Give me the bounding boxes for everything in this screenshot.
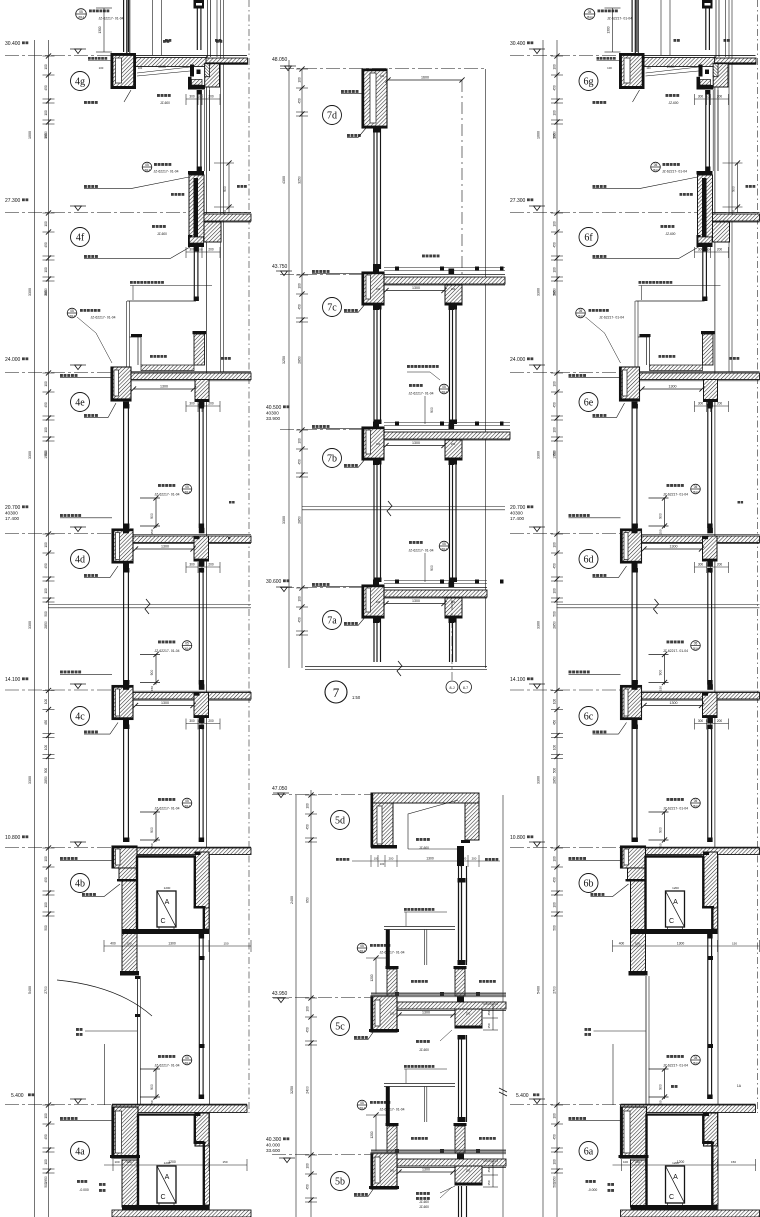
svg-text:150: 150 [223, 942, 228, 946]
svg-text:5b: 5b [335, 1177, 345, 1188]
svg-text:1300: 1300 [607, 26, 611, 33]
svg-text:JZ-62217- 01-04: JZ-62217- 01-04 [98, 17, 123, 21]
svg-text:05: 05 [185, 799, 189, 803]
window head annotation bubble [158, 641, 161, 644]
sub-dimension 300 100 200 [695, 723, 729, 725]
svg-text:1300: 1300 [161, 701, 169, 705]
svg-text:100: 100 [298, 283, 302, 289]
svg-text:100: 100 [706, 95, 711, 99]
svg-text:100: 100 [553, 588, 557, 594]
svg-text:1950: 1950 [553, 1176, 557, 1184]
svg-text:1300: 1300 [168, 942, 176, 946]
module 5d circle [331, 811, 350, 830]
svg-text:3250: 3250 [298, 176, 302, 184]
svg-text:450: 450 [44, 402, 48, 408]
svg-text:05: 05 [185, 1056, 189, 1060]
svg-text:10.800: 10.800 [510, 835, 526, 841]
svg-text:150: 150 [150, 686, 154, 691]
svg-text:J614: J614 [184, 490, 191, 494]
svg-text:JZ-62217- 01-04: JZ-62217- 01-04 [408, 549, 433, 553]
svg-text:-0.000: -0.000 [588, 1188, 598, 1192]
svg-text:05: 05 [360, 944, 364, 948]
module 5b level line [272, 1154, 371, 1156]
svg-text:1000: 1000 [667, 65, 675, 69]
interior finish leader text [60, 671, 63, 674]
svg-text:C: C [160, 1194, 165, 1201]
window head annotation bubble [667, 798, 670, 801]
svg-text:1950: 1950 [44, 131, 48, 139]
glass between g and f [196, 90, 198, 171]
tiny roof labels [165, 39, 168, 42]
svg-text:100: 100 [126, 942, 131, 946]
svg-text:43.950: 43.950 [272, 991, 288, 997]
svg-text:450: 450 [306, 1184, 310, 1190]
svg-text:100: 100 [197, 563, 202, 567]
svg-text:30.400: 30.400 [5, 41, 21, 47]
module 5b leaders [354, 1193, 357, 1196]
sub-dimension 300 100 200 [695, 251, 729, 253]
svg-text:JZ-600: JZ-600 [666, 232, 676, 236]
svg-text:200: 200 [472, 857, 477, 861]
module 5b roof labels [411, 1137, 414, 1140]
module 6e dim 1300 [642, 388, 702, 390]
module 5c level line [272, 997, 371, 999]
svg-text:450: 450 [44, 85, 48, 91]
svg-text:450: 450 [553, 563, 557, 569]
svg-text:24.000: 24.000 [510, 357, 526, 363]
svg-text:1300: 1300 [670, 701, 678, 705]
PW bubble right 7b [409, 384, 412, 387]
svg-text:05: 05 [145, 163, 149, 167]
svg-text:1300: 1300 [412, 599, 420, 603]
chain tick group [551, 1104, 563, 1106]
mid module left jamb block [362, 427, 384, 460]
svg-text:200: 200 [717, 95, 723, 99]
window glazing lines right plane [705, 0, 707, 50]
facade outer line upper [220, 0, 222, 372]
chain tick group [551, 372, 563, 374]
column 6 extent line [542, 40, 544, 1217]
svg-text:200: 200 [717, 563, 723, 567]
svg-text:47.050: 47.050 [272, 786, 288, 792]
svg-text:A: A [673, 1174, 678, 1181]
module 6g window head frame [699, 65, 703, 77]
svg-text:900: 900 [223, 186, 227, 192]
module 4e dim 1300 [134, 388, 194, 390]
section marker circles 8-J 8-7 [451, 600, 453, 680]
window head annotation bubble [158, 1055, 161, 1058]
svg-text:900: 900 [150, 513, 154, 519]
svg-text:450: 450 [306, 1027, 310, 1033]
module 6a A/C box [666, 1166, 685, 1203]
svg-text:450: 450 [306, 824, 310, 830]
leader text sill [593, 731, 596, 734]
module 5d level line [272, 794, 371, 796]
level dash-dot line [5, 689, 112, 691]
middle column chain line [301, 69, 303, 668]
module 6e slab [620, 373, 760, 380]
glass between g and f [705, 90, 707, 171]
svg-text:200: 200 [208, 719, 214, 723]
svg-text:J614: J614 [652, 168, 659, 172]
module 4g finish label [88, 57, 91, 60]
svg-text:300: 300 [698, 402, 704, 406]
svg-text:100: 100 [44, 381, 48, 387]
door frame marks [135, 976, 140, 979]
svg-text:900: 900 [430, 565, 434, 571]
svg-text:5400: 5400 [537, 986, 541, 994]
svg-text:200: 200 [717, 402, 723, 406]
svg-text:1300: 1300 [412, 441, 420, 445]
svg-text:100: 100 [646, 66, 651, 70]
svg-text:05: 05 [654, 163, 658, 167]
module 6g interior slope lines [646, 67, 699, 73]
svg-text:200: 200 [635, 1160, 640, 1164]
module 6g finish label [597, 57, 600, 60]
svg-text:450: 450 [553, 720, 557, 726]
svg-text:JZ-600: JZ-600 [419, 1205, 429, 1209]
svg-text:300: 300 [698, 248, 704, 252]
svg-text:200: 200 [451, 600, 456, 604]
module 7b level line [280, 429, 362, 431]
module 6a ground hatch [621, 1210, 760, 1217]
right beam block [703, 536, 718, 561]
glass between d and c [123, 568, 125, 685]
glass between b and a [198, 934, 200, 1099]
tiny Bh label [229, 501, 232, 504]
svg-text:1200: 1200 [370, 974, 374, 981]
module 6e right beam below [704, 380, 718, 402]
module 5b left block [371, 1153, 397, 1189]
svg-text:100: 100 [553, 902, 557, 908]
module 5c right blocks [455, 1009, 482, 1028]
svg-text:100: 100 [553, 699, 557, 705]
mid chain ticks [296, 274, 308, 276]
detail circle 7d [323, 106, 342, 125]
svg-text:200: 200 [466, 1169, 471, 1173]
svg-text:J614: J614 [577, 314, 584, 318]
facade outer line upper [728, 0, 730, 372]
module 6a leaders [586, 1180, 589, 1183]
detail 7 title circle [325, 681, 347, 703]
svg-text:1300: 1300 [669, 385, 677, 389]
level dash-dot line [510, 1104, 621, 1106]
svg-text:100: 100 [635, 942, 640, 946]
svg-text:17.400: 17.400 [510, 516, 524, 521]
window head annotation bubble [158, 798, 161, 801]
svg-text:650: 650 [306, 897, 310, 903]
svg-text:2850: 2850 [298, 356, 302, 364]
level dash-dot line [510, 212, 698, 214]
wall below module 6b [645, 976, 647, 1105]
window frame blacks [123, 684, 129, 690]
svg-text:500: 500 [553, 611, 557, 617]
module 5b balcony rail [384, 1083, 455, 1085]
sub-dimension 300 100 200 [186, 405, 220, 407]
svg-text:05: 05 [694, 799, 698, 803]
module 6a ground black slab [631, 1205, 718, 1210]
mid module left jamb block [362, 272, 384, 305]
svg-text:200: 200 [208, 248, 214, 252]
level dash-dot line [5, 847, 112, 849]
module 7a level line [280, 587, 362, 589]
module 5b topping dark band [371, 1149, 506, 1154]
svg-text:300: 300 [698, 95, 704, 99]
window head dim 900 [155, 498, 157, 528]
module 6g roof finish line [620, 54, 756, 56]
mid module left jamb block [362, 585, 384, 618]
svg-text:100: 100 [706, 719, 711, 723]
svg-text:100: 100 [298, 77, 302, 83]
svg-text:100: 100 [44, 110, 48, 116]
module 5b circle [331, 1172, 350, 1191]
left column extra right-edge labels [228, 537, 230, 539]
svg-text:300: 300 [698, 719, 704, 723]
5-series extent line [295, 795, 297, 1217]
detail circle 4a [71, 1142, 90, 1161]
svg-text:150: 150 [659, 529, 663, 534]
mid module window frame blacks [373, 267, 379, 273]
svg-text:A: A [165, 899, 170, 906]
window head dim 900 [155, 812, 157, 842]
level dash-dot line [5, 372, 111, 374]
detail circle 4d [71, 550, 90, 569]
svg-text:100: 100 [44, 699, 48, 705]
window frame blacks [632, 684, 638, 690]
detail circle 6b [579, 874, 598, 893]
verticals above parapet [634, 0, 636, 53]
module 4b bottom dims [104, 945, 251, 947]
svg-text:05: 05 [79, 10, 83, 14]
detail circle 4g [71, 72, 90, 91]
detail circle 4c [71, 707, 90, 726]
svg-text:1000: 1000 [158, 65, 166, 69]
module 6f leaders [680, 193, 683, 196]
module 4g window head frame [190, 65, 194, 77]
grid boundary dashed line [248, 0, 250, 1113]
verticals above parapet [126, 0, 128, 53]
left window jamb block [621, 686, 642, 720]
svg-text:JZ-600: JZ-600 [419, 1048, 429, 1052]
mid module dim 1300 [386, 290, 444, 292]
facade outer face mid [205, 56, 207, 855]
detail 7 right boundary [485, 69, 487, 668]
module 7d top level line [280, 68, 485, 70]
story break line [48, 604, 251, 606]
module 5b right dims 450 150 [492, 1161, 494, 1187]
svg-text:150: 150 [659, 686, 663, 691]
chain tick group [551, 847, 563, 849]
module 4g leader texts [157, 94, 160, 97]
chain tick group [43, 690, 55, 692]
insulation board annotation [130, 281, 133, 284]
module 4b right wall column [195, 852, 209, 908]
module 4a leaders [77, 1180, 80, 1183]
svg-text:A: A [673, 899, 678, 906]
mid chain ticks [296, 429, 308, 431]
module 5c sill dim [375, 958, 377, 994]
svg-text:8-7: 8-7 [463, 686, 468, 690]
svg-text:100: 100 [380, 74, 385, 78]
svg-text:400: 400 [110, 942, 116, 946]
svg-text:24.000: 24.000 [5, 357, 21, 363]
mid level line f [204, 212, 251, 214]
svg-text:200: 200 [451, 287, 456, 291]
window head dim 900 [664, 1069, 666, 1099]
svg-text:3300: 3300 [537, 776, 541, 784]
svg-text:JZ-62217- 01-04: JZ-62217- 01-04 [607, 17, 632, 21]
glass mid tabs [199, 956, 205, 960]
right beam block [703, 693, 718, 718]
svg-text:1300: 1300 [422, 1011, 430, 1015]
module 7c level line [280, 274, 362, 276]
svg-text:C: C [669, 1194, 674, 1201]
5-series chain ticks [305, 794, 317, 796]
module 6f right dim 900 [737, 163, 739, 213]
floor slab hatched band [642, 536, 760, 543]
svg-text:3300: 3300 [282, 516, 286, 524]
svg-text:2850: 2850 [44, 288, 48, 296]
column 4 extent line [34, 40, 36, 1217]
module 6b left stepped block [621, 846, 646, 868]
module 4a room inner faces [138, 1114, 195, 1116]
svg-text:JZ-600: JZ-600 [419, 846, 429, 850]
module 6a left big block [621, 1107, 647, 1158]
column 6 dimension chain line [556, 40, 558, 1217]
svg-text:150: 150 [487, 1023, 491, 1028]
svg-text:900: 900 [732, 186, 736, 192]
svg-text:J614: J614 [692, 647, 699, 651]
detail circle 6d [579, 550, 598, 569]
grid boundary dashed line [757, 0, 759, 1113]
chain tick group [43, 55, 55, 57]
window head annotation bubble [667, 641, 670, 644]
svg-text:40300: 40300 [510, 511, 523, 516]
svg-text:100: 100 [44, 745, 48, 751]
dim 1300 [136, 548, 194, 550]
svg-text:40.000: 40.000 [266, 1143, 280, 1148]
module 6f slab [713, 214, 760, 221]
svg-text:1300: 1300 [670, 545, 678, 549]
svg-text:5400: 5400 [28, 986, 32, 994]
svg-text:1950: 1950 [553, 131, 557, 139]
facade outer face mid [714, 56, 716, 855]
right beam block [194, 693, 209, 718]
svg-text:7c: 7c [327, 303, 337, 314]
chain tick group [43, 533, 55, 535]
svg-text:200: 200 [208, 402, 214, 406]
svg-text:7a: 7a [327, 616, 337, 627]
mid module leaders [312, 583, 315, 586]
module 4e right beam below [195, 380, 209, 402]
svg-text:3300: 3300 [28, 776, 32, 784]
svg-text:450: 450 [487, 1010, 491, 1015]
svg-text:05: 05 [694, 1056, 698, 1060]
module 6e parapet outer face [634, 301, 636, 368]
module 5c topping dark band [371, 992, 506, 997]
module 5b slab band [371, 1159, 506, 1166]
svg-text:1950: 1950 [553, 451, 557, 459]
svg-text:100: 100 [197, 402, 202, 406]
mid module finish lines above slab [384, 580, 487, 582]
glass between c and b [123, 725, 125, 843]
svg-text:J614: J614 [184, 1061, 191, 1065]
svg-text:2850: 2850 [44, 621, 48, 629]
svg-text:30.600: 30.600 [266, 579, 282, 585]
module 5c annotation bubble [357, 943, 367, 953]
svg-text:33.600: 33.600 [266, 1148, 280, 1153]
svg-text:05: 05 [442, 385, 446, 389]
module 4f wall column [189, 175, 204, 237]
module 5b sill dim [375, 1115, 377, 1151]
svg-text:J614: J614 [69, 314, 76, 318]
svg-text:6a: 6a [584, 1147, 594, 1158]
module 4a ground black slab [122, 1205, 209, 1210]
glass 7d to 7c [373, 128, 375, 269]
svg-text:05: 05 [360, 1101, 364, 1105]
module 4a left big block [112, 1107, 138, 1158]
svg-text:3250: 3250 [290, 1086, 294, 1094]
svg-text:100: 100 [376, 287, 381, 291]
svg-text:100: 100 [553, 1159, 557, 1165]
level dash-dot line [5, 212, 189, 214]
glass between e and d [631, 404, 633, 528]
svg-text:450: 450 [44, 242, 48, 248]
interior finish leader text [60, 514, 63, 517]
svg-text:1200: 1200 [370, 1131, 374, 1138]
svg-text:J614: J614 [144, 168, 151, 172]
svg-text:100: 100 [553, 110, 557, 116]
module 4e small text right [221, 357, 224, 360]
detail circle 7a [323, 611, 342, 630]
svg-text:1300: 1300 [98, 26, 102, 33]
svg-text:A: A [165, 1174, 170, 1181]
svg-text:05: 05 [588, 10, 592, 14]
mid-wall leader texts [76, 1028, 79, 1031]
dim 1300 [644, 705, 702, 707]
middle column extent line [288, 60, 290, 668]
glass between d and c [631, 568, 633, 685]
parapet vertical dim 1300 [612, 8, 614, 52]
module 4e left end block [111, 367, 131, 401]
svg-text:4a: 4a [75, 1147, 85, 1158]
svg-text:4f: 4f [76, 233, 85, 244]
module 6b room inner faces [646, 856, 704, 858]
module 4g right beam block [205, 64, 220, 87]
module 5d bottom dims [352, 860, 500, 862]
glass 7b to 7a [373, 460, 375, 582]
module 6g roof slab hatch [639, 58, 716, 67]
module 6g right beam band [715, 58, 757, 64]
svg-text:200: 200 [208, 95, 214, 99]
5-series right boundary [502, 795, 504, 1217]
svg-text:100: 100 [553, 381, 557, 387]
detail circle 6e [579, 393, 598, 412]
module 6e planter label [659, 355, 662, 358]
module 4b slab [112, 848, 251, 855]
svg-text:1A: 1A [737, 1084, 742, 1088]
module 5c roof labels [411, 980, 414, 983]
svg-text:J614: J614 [692, 490, 699, 494]
level dash-dot line [510, 847, 621, 849]
svg-text:100: 100 [553, 745, 557, 751]
module 4e bubble [67, 308, 77, 318]
svg-text:1300: 1300 [160, 385, 168, 389]
svg-text:JZ-62217- 01-04: JZ-62217- 01-04 [379, 1108, 404, 1112]
svg-text:100: 100 [706, 248, 711, 252]
svg-text:100: 100 [553, 542, 557, 548]
right beam block [194, 536, 209, 561]
